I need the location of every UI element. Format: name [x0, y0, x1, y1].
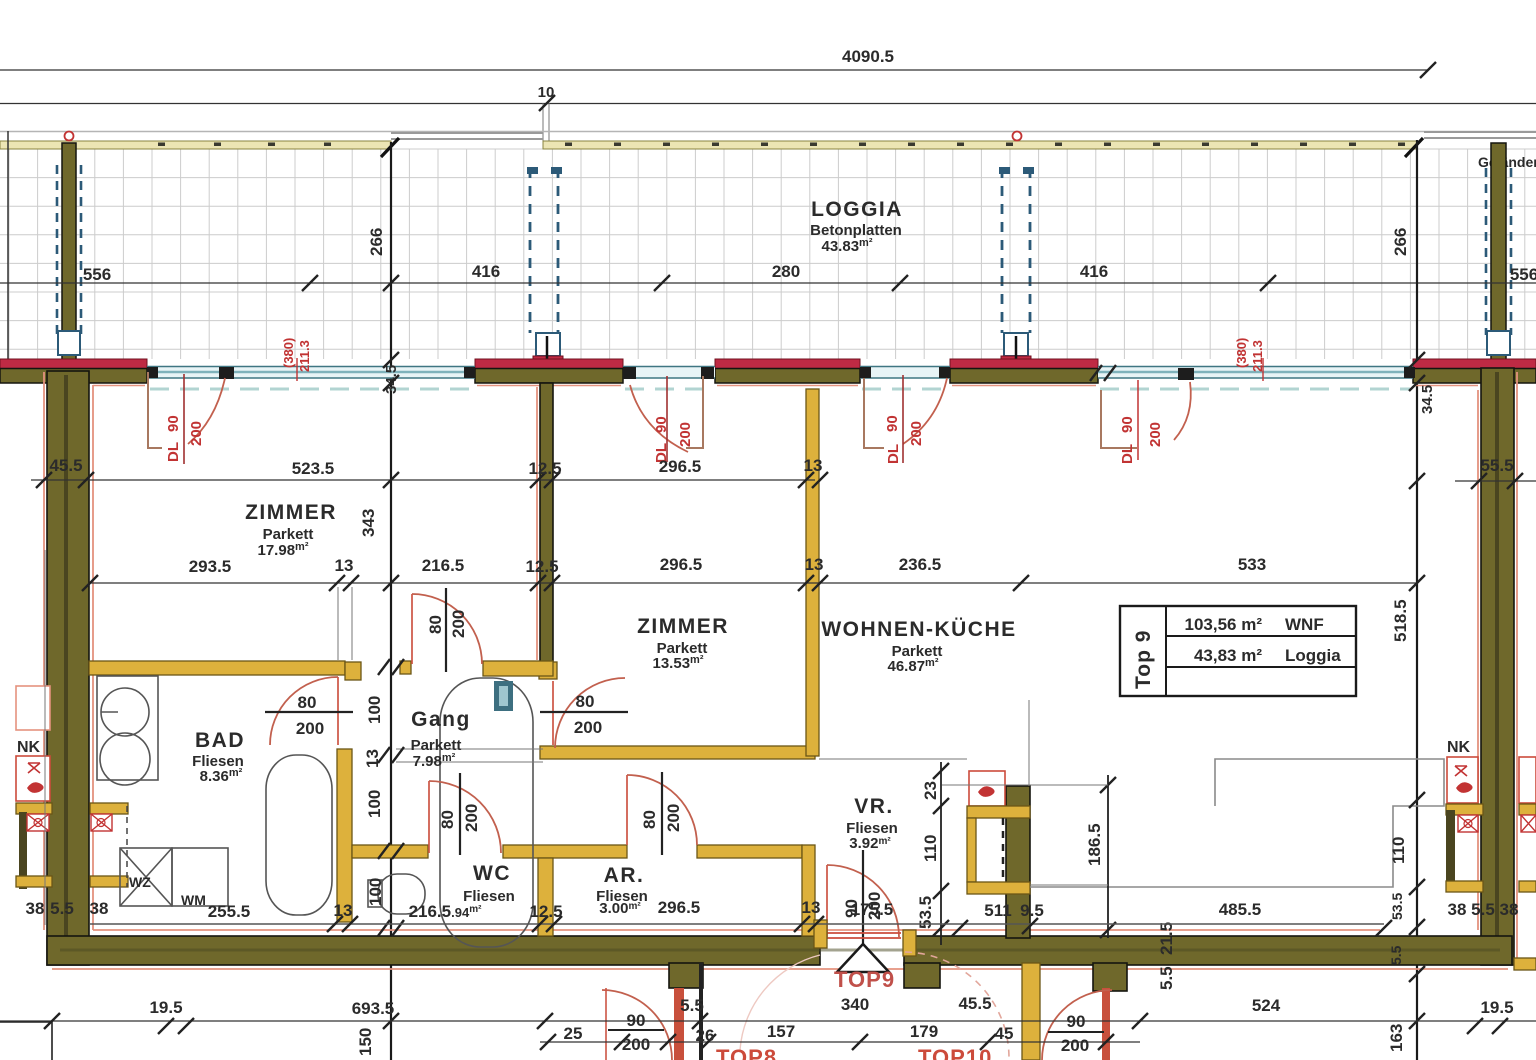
- dim 38 5.5 38 left: [26, 899, 109, 918]
- svg-text:Gang: Gang: [411, 708, 471, 731]
- svg-text:5.5: 5.5: [680, 996, 704, 1015]
- ticks on x391 chain: [378, 275, 404, 1029]
- svg-text:236.5: 236.5: [899, 555, 942, 574]
- extension lines near 13 wall: [45, 550, 543, 925]
- svg-text:13: 13: [335, 556, 354, 575]
- svg-text:100: 100: [366, 878, 385, 906]
- left shaft yellow bottom band: [16, 876, 52, 887]
- NK shaft symbol right: [1455, 766, 1467, 776]
- svg-text:ZIMMER: ZIMMER: [637, 615, 729, 638]
- svg-text:200: 200: [188, 421, 205, 446]
- svg-text:WOHNEN-KÜCHE: WOHNEN-KÜCHE: [821, 618, 1016, 641]
- balcony door DL1 swing: [188, 378, 225, 444]
- svg-text:TOP9: TOP9: [834, 967, 895, 992]
- svg-text:90: 90: [1067, 1012, 1086, 1031]
- room label Gang: [411, 708, 471, 770]
- wall W2 (Zimmer2 east / Wohnen west): [806, 389, 819, 756]
- building edge line: [0, 103, 1536, 105]
- dimension line A right stub: [1455, 456, 1536, 489]
- svg-text:DL: DL: [1119, 444, 1136, 464]
- svg-text:90: 90: [165, 415, 182, 432]
- Zimmer1 door swing: [412, 594, 482, 664]
- svg-text:200: 200: [296, 719, 324, 738]
- far right partial shaft: [1519, 757, 1536, 892]
- svg-text:38: 38: [90, 899, 109, 918]
- bathtub in Bad: [266, 755, 332, 915]
- WC toilet: [368, 874, 425, 914]
- VR shaft yellow bottom band: [967, 882, 1030, 894]
- svg-text:(380): (380): [281, 338, 296, 368]
- kitchen counter outline: [1030, 759, 1444, 887]
- svg-text:90: 90: [1119, 416, 1136, 433]
- VR shaft yellow top band: [967, 806, 1030, 818]
- svg-text:163: 163: [1387, 1024, 1406, 1052]
- dimension line A (y480): [31, 456, 828, 488]
- bottom corridor wall stub 1: [669, 963, 703, 988]
- DL3 label DL 90/200: [884, 415, 925, 464]
- Zimmer1 door leaf: [411, 594, 413, 664]
- Zimmer2 door leaf: [552, 681, 554, 745]
- svg-text:ZIMMER: ZIMMER: [245, 501, 337, 524]
- red survey circle left: [65, 132, 74, 141]
- svg-text:13: 13: [805, 555, 824, 574]
- loggia floor tile grid: [0, 149, 1536, 359]
- svg-text:Betonplatten: Betonplatten: [810, 222, 902, 239]
- TOP9 jamb nub right: [903, 930, 916, 956]
- svg-text:110: 110: [1389, 837, 1408, 864]
- vertical dim chain at x394 labels: [363, 696, 385, 906]
- svg-text:NK: NK: [1447, 739, 1471, 756]
- left shaft vent red box: [27, 814, 49, 831]
- balcony door DL2 swing: [630, 385, 688, 452]
- Bad east wall: [337, 749, 352, 922]
- svg-text:(380): (380): [1234, 338, 1249, 368]
- NK shaft box right: [1447, 757, 1478, 803]
- svg-text:12.5: 12.5: [528, 459, 561, 478]
- svg-text:WM: WM: [181, 892, 206, 908]
- reference line x391: [390, 142, 392, 1060]
- svg-text:255.5: 255.5: [208, 902, 251, 921]
- parapet red band segments: [0, 359, 1536, 369]
- right exterior wall: [1481, 368, 1514, 965]
- salmon inner face line left wall inner: [92, 385, 94, 930]
- svg-text:13: 13: [363, 749, 382, 768]
- svg-text:9.5: 9.5: [1020, 901, 1044, 920]
- dark tick marks on slab edge: [158, 143, 1405, 147]
- right shaft yellow band: [1446, 804, 1483, 815]
- dimension line B (y583): [82, 555, 1417, 591]
- svg-text:211.3: 211.3: [297, 340, 312, 372]
- door dim 90/200 at TOP10: [1048, 1012, 1104, 1055]
- svg-text:23: 23: [921, 781, 940, 800]
- svg-text:110: 110: [921, 835, 940, 862]
- corner lines bottom left: [0, 1022, 52, 1060]
- left shaft yellow band: [16, 803, 52, 814]
- VR shaft upper red box: [969, 771, 1005, 806]
- left neighbour shaft upper box: [16, 686, 50, 730]
- arrow tick at slab step right: [1405, 138, 1423, 157]
- bottom dimension line y1042: [540, 1022, 1140, 1050]
- loggia glass divider mid-left: [527, 167, 563, 368]
- upper gray line: [0, 131, 1536, 133]
- svg-text:4090.5: 4090.5: [842, 47, 894, 66]
- TOP10 red wall: [1102, 988, 1110, 1060]
- svg-text:BAD: BAD: [195, 729, 245, 752]
- balcony door DL4 frame: [1101, 390, 1137, 448]
- room label Zimmer 2: [637, 615, 729, 672]
- Bad door leaf: [337, 677, 339, 745]
- svg-text:150: 150: [356, 1028, 375, 1056]
- Zimmer2 door swing: [555, 678, 625, 748]
- window dim (380) 211.3 right: [1234, 338, 1265, 372]
- svg-text:200: 200: [664, 804, 683, 832]
- dimension 10: [538, 84, 555, 141]
- svg-text:100: 100: [365, 696, 384, 724]
- svg-text:200: 200: [677, 422, 694, 447]
- W1 bottom corner (yellow): [539, 662, 557, 679]
- dim 21.5/5.5 rotated right of stub: [1157, 922, 1176, 990]
- WM washing machine box: [172, 848, 228, 908]
- bottom exterior wall right part: [904, 936, 1512, 965]
- svg-text:523.5: 523.5: [292, 459, 335, 478]
- svg-text:80: 80: [298, 693, 317, 712]
- bottom wall inner highlight line: [60, 949, 1500, 952]
- svg-text:280: 280: [772, 262, 800, 281]
- interior wall W1 zimmer2 west (olive): [540, 383, 553, 662]
- Bad door dim bar: [265, 711, 353, 713]
- svg-text:19.5: 19.5: [1480, 998, 1513, 1017]
- right shaft yellow bottom band: [1446, 881, 1483, 892]
- right shaft dark strip: [1446, 810, 1455, 888]
- svg-text:38: 38: [1448, 900, 1467, 919]
- VR shaft yellow left strip: [967, 818, 976, 882]
- svg-text:200: 200: [1061, 1036, 1089, 1055]
- door dim 90/200 at TOP8: [608, 1011, 664, 1054]
- svg-text:157: 157: [767, 1022, 795, 1041]
- svg-text:VR.: VR.: [854, 795, 894, 818]
- bottom dimension line y1021: [0, 994, 1536, 1034]
- svg-text:485.5: 485.5: [1219, 900, 1262, 919]
- stair swing dashed arc: [905, 952, 1009, 1058]
- balcony slab edge (yellow band) left: [0, 141, 1417, 149]
- svg-text:200: 200: [908, 421, 925, 446]
- Zimmer1 south wall right segment: [483, 661, 553, 676]
- bottom right corner yellow strip: [1514, 958, 1536, 970]
- svg-text:90: 90: [627, 1011, 646, 1030]
- WC door leaf: [428, 781, 430, 853]
- door jamb nub: [400, 661, 411, 674]
- room label Wohnen-Kueche: [821, 618, 1016, 675]
- reference line x1417: [1416, 140, 1418, 1060]
- loggia divider wall far right: [1486, 143, 1511, 368]
- room label WC: [463, 862, 515, 905]
- svg-text:5.5: 5.5: [1471, 900, 1495, 919]
- tall cupboard / tub in Gang: [440, 678, 533, 947]
- balcony door DL3 swing: [903, 378, 947, 444]
- TOP10 vestibule yellow wall: [1022, 963, 1040, 1060]
- svg-text:175.5: 175.5: [851, 900, 894, 919]
- svg-text:80: 80: [640, 810, 659, 829]
- loggia divider wall far left: [57, 143, 81, 365]
- svg-text:5.5: 5.5: [50, 899, 74, 918]
- arrow tick at slab step left: [381, 138, 399, 157]
- kitchen vertical dim line x1108: [1085, 775, 1116, 938]
- balcony door DL2 glazing: [623, 367, 715, 380]
- salmon face of W1: [536, 387, 538, 660]
- entrance door leaf: [826, 865, 828, 937]
- Zimmer2 south wall: [540, 746, 815, 759]
- svg-text:293.5: 293.5: [189, 557, 232, 576]
- room label VR: [846, 795, 898, 852]
- entrance door dim bar: [862, 850, 864, 948]
- balcony door DL2 frame: [686, 376, 703, 448]
- Bad north wall end blob: [345, 662, 361, 680]
- Zimmer2 door label 80/200: [574, 692, 602, 737]
- AR north wall east segment: [697, 845, 802, 858]
- svg-text:45.5: 45.5: [49, 456, 82, 475]
- svg-text:Fliesen: Fliesen: [463, 888, 515, 905]
- entrance door swing: [827, 865, 899, 937]
- washbasin unit in Bad: [97, 676, 158, 785]
- VR shaft olive wall: [1006, 786, 1030, 938]
- Zimmer2 door dim bar: [540, 711, 628, 713]
- svg-text:518.5: 518.5: [1391, 599, 1410, 642]
- svg-text:13: 13: [334, 901, 353, 920]
- svg-text:21.5: 21.5: [1157, 922, 1176, 955]
- svg-text:200: 200: [1147, 422, 1164, 447]
- svg-text:WNF: WNF: [1285, 615, 1324, 634]
- railing segment right: [1424, 132, 1536, 138]
- salmon line below bottom wall: [52, 968, 1508, 970]
- dashed lintel lines under openings: [150, 388, 1410, 391]
- svg-text:556: 556: [1510, 265, 1536, 284]
- TOP8 red wall: [674, 988, 684, 1060]
- svg-text:38: 38: [1500, 900, 1519, 919]
- svg-text:DL: DL: [165, 442, 182, 462]
- svg-text:179: 179: [910, 1022, 938, 1041]
- TOP9 jamb nub left: [814, 920, 827, 948]
- AR door leaf: [626, 775, 628, 845]
- dimension line y923: [90, 898, 1392, 936]
- room label AR: [596, 864, 648, 917]
- window band A (Zimmer 1): [147, 367, 475, 380]
- balcony door DL1 frame: [148, 372, 162, 448]
- electrical panel in Gang: [494, 681, 513, 711]
- svg-text:511: 511: [984, 901, 1011, 920]
- svg-text:45: 45: [995, 1024, 1014, 1043]
- svg-text:266: 266: [1391, 228, 1410, 256]
- left neighbour NK box: [16, 756, 50, 801]
- exterior wall band below parapet: [0, 369, 1536, 384]
- red survey circle right: [1013, 132, 1022, 141]
- AR door dim bar: [661, 772, 663, 855]
- right shaft vent red box: [1448, 815, 1478, 832]
- dim 38 5.5 38 right: [1448, 900, 1519, 919]
- svg-text:524: 524: [1252, 996, 1281, 1015]
- svg-text:13: 13: [804, 456, 823, 475]
- cross marks at window C start: [1090, 365, 1116, 381]
- svg-text:693.5: 693.5: [352, 999, 395, 1018]
- salmon line above bottom wall: [93, 929, 1380, 931]
- svg-text:200: 200: [462, 804, 481, 832]
- LOGGIA room label: [810, 198, 903, 255]
- room label Bad: [192, 729, 245, 785]
- svg-text:AR.: AR.: [604, 864, 645, 887]
- right vertical chain labels: [1388, 837, 1408, 965]
- svg-text:100: 100: [365, 790, 384, 818]
- svg-text:Geländer: Geländer: [1478, 154, 1536, 170]
- svg-text:45.5: 45.5: [958, 994, 991, 1013]
- svg-text:DL: DL: [885, 444, 902, 464]
- VR vertical dim line x941: [916, 762, 949, 945]
- bottom corridor wall stub 3: [1093, 963, 1127, 991]
- svg-text:80: 80: [438, 810, 457, 829]
- AR door swing: [627, 775, 697, 845]
- WC north wall west segment: [352, 845, 428, 858]
- svg-text:343: 343: [359, 509, 378, 537]
- salmon line right wall faces: [1477, 390, 1479, 930]
- Bad side shaft dashed edge: [126, 806, 128, 887]
- svg-text:5.5: 5.5: [1388, 945, 1404, 965]
- left shaft dark strip: [19, 812, 27, 889]
- bottom exterior wall left part: [47, 936, 820, 965]
- WC/AR north wall middle segment: [503, 845, 627, 858]
- VR shaft dashed inner line: [1002, 818, 1005, 882]
- svg-text:12.5: 12.5: [525, 557, 558, 576]
- svg-text:Loggia: Loggia: [1285, 646, 1341, 665]
- svg-text:25: 25: [564, 1024, 583, 1043]
- bottom corridor wall stub 2: [904, 963, 940, 988]
- WZ appliance box with cross: [120, 848, 172, 906]
- bottom corridor dark edge line: [699, 963, 703, 1060]
- Bad door label 80/200: [296, 693, 324, 738]
- svg-text:19.5: 19.5: [149, 998, 182, 1017]
- svg-text:TOP8: TOP8: [716, 1045, 777, 1060]
- room label Zimmer 1: [245, 501, 337, 559]
- DL2 label DL 90/200: [653, 416, 694, 463]
- svg-text:103,56 m²: 103,56 m²: [1185, 615, 1263, 634]
- window band C (Wohnen-Kueche big window): [1098, 367, 1415, 381]
- svg-text:5.5: 5.5: [1157, 966, 1176, 990]
- left NK symbol: [28, 763, 40, 773]
- Top 9 area table: [1120, 606, 1356, 696]
- svg-text:43,83 m²: 43,83 m²: [1194, 646, 1262, 665]
- svg-text:296.5: 296.5: [660, 555, 703, 574]
- svg-text:216.5: 216.5: [422, 556, 465, 575]
- svg-text:80: 80: [426, 615, 445, 634]
- svg-text:80: 80: [576, 692, 595, 711]
- loggia dimension line: [0, 262, 1536, 291]
- WC east wall: [538, 858, 553, 936]
- Bad side shaft yellow band: [90, 803, 128, 814]
- reference line left edge: [7, 131, 9, 368]
- ticks on x1417: [1409, 473, 1425, 1029]
- DL4 label DL 90/200: [1119, 416, 1164, 464]
- svg-text:90: 90: [884, 415, 901, 432]
- loggia glass divider mid-right: [999, 167, 1034, 368]
- svg-text:26: 26: [696, 1026, 715, 1045]
- balcony door DL4 swing: [1174, 382, 1191, 440]
- svg-text:556: 556: [83, 265, 111, 284]
- Zimmer1 door dim bar: [445, 588, 447, 672]
- entrance door label 90/200: [842, 892, 884, 920]
- Bad side shaft yellow bottom band: [90, 876, 128, 887]
- railing (Gelaender) segment middle: [391, 133, 543, 139]
- Bad side shaft vent red box: [91, 814, 112, 831]
- Bad north wall: [89, 661, 345, 675]
- svg-text:NK: NK: [17, 739, 41, 756]
- svg-text:13: 13: [802, 898, 821, 917]
- salmon inner face line left wall outer: [43, 372, 45, 930]
- WC door label 80/200: [438, 804, 481, 832]
- top dimension line 4090.5: [0, 47, 1436, 78]
- svg-text:533: 533: [1238, 555, 1266, 574]
- TOP8 door swing: [602, 990, 672, 1060]
- svg-text:WC: WC: [473, 862, 511, 885]
- svg-text:296.5: 296.5: [659, 457, 702, 476]
- window dim (380) 211.3 left: [281, 338, 312, 372]
- TOP9 threshold red lines: [823, 933, 901, 938]
- svg-text:296.5: 296.5: [658, 898, 701, 917]
- svg-text:34.5: 34.5: [1419, 385, 1436, 414]
- VR shaft red symbol: [978, 786, 995, 797]
- svg-text:416: 416: [472, 262, 500, 281]
- balcony door DL3 frame: [864, 378, 884, 448]
- Zimmer1 door label 80/200: [426, 610, 468, 638]
- svg-text:340: 340: [841, 995, 869, 1014]
- svg-text:416: 416: [1080, 262, 1108, 281]
- WC door swing: [429, 781, 501, 853]
- svg-text:266: 266: [367, 228, 386, 256]
- AR door label 80/200: [640, 804, 683, 832]
- WC door dim bar: [459, 773, 461, 855]
- svg-text:53.5: 53.5: [1389, 893, 1405, 920]
- TOP9 entrance triangle: [837, 944, 889, 972]
- AR east wall: [802, 845, 815, 936]
- svg-text:WZ: WZ: [129, 874, 151, 890]
- TOP8 door jamb: [605, 988, 607, 1060]
- left exterior wall: [47, 371, 89, 965]
- svg-text:38: 38: [26, 899, 45, 918]
- svg-text:200: 200: [622, 1035, 650, 1054]
- window band B (Wohnen door): [860, 367, 950, 379]
- kitchen extension lines: [819, 700, 1108, 885]
- svg-text:12.5: 12.5: [529, 902, 562, 921]
- svg-text:200: 200: [449, 610, 468, 638]
- TOP10 door swing: [1042, 990, 1112, 1060]
- svg-text:186.5: 186.5: [1085, 823, 1104, 866]
- svg-text:200: 200: [574, 718, 602, 737]
- DL1 label DL 90/200: [165, 415, 205, 462]
- svg-text:LOGGIA: LOGGIA: [811, 198, 903, 221]
- svg-text:Top 9: Top 9: [1132, 630, 1155, 689]
- svg-text:55.5: 55.5: [1480, 456, 1513, 475]
- Bad door swing: [270, 677, 338, 745]
